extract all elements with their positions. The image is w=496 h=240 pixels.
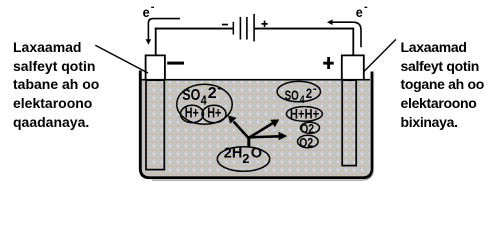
svg-text:2: 2 — [242, 151, 249, 166]
svg-text:O: O — [251, 146, 262, 162]
svg-text:4: 4 — [201, 94, 207, 108]
svg-text:H+H+: H+H+ — [290, 106, 319, 121]
svg-text:2: 2 — [208, 85, 217, 102]
svg-text:e: e — [356, 4, 363, 20]
svg-text:2H: 2H — [224, 146, 243, 162]
svg-text:-: - — [313, 83, 317, 95]
svg-text:-: - — [151, 1, 155, 13]
svg-text:O2: O2 — [300, 122, 314, 136]
svg-text:2: 2 — [306, 85, 312, 101]
svg-text:e: e — [143, 4, 150, 20]
svg-text:-: - — [217, 80, 221, 95]
svg-text:H+: H+ — [207, 104, 221, 121]
svg-text:H+: H+ — [185, 104, 199, 121]
svg-text:SO: SO — [285, 87, 299, 103]
svg-text:-: - — [364, 1, 368, 13]
svg-text:O2: O2 — [299, 136, 313, 150]
svg-text:4: 4 — [300, 94, 305, 106]
svg-text:SO: SO — [182, 87, 200, 105]
